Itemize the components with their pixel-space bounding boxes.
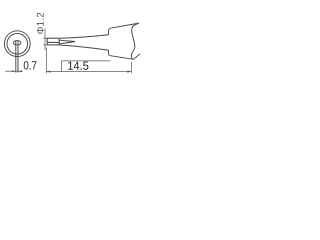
body bottom line xyxy=(110,56,133,60)
dia 1.2 dimension vertical line xyxy=(44,29,46,51)
side view blade mid line xyxy=(47,41,59,43)
shoulder bottom chamfer xyxy=(109,55,111,56)
label dia 1.2 (rotated) xyxy=(37,13,44,34)
shoulder top vertical xyxy=(108,30,110,35)
annotation box left vertical xyxy=(60,61,62,72)
cone top line xyxy=(59,35,108,39)
shoulder top chamfer xyxy=(109,28,111,30)
front view inner circle xyxy=(7,34,28,55)
0.7 right arrow xyxy=(18,70,22,72)
blade edge extension line left xyxy=(15,41,17,73)
14.5 right extension line xyxy=(130,62,132,73)
14.5 dimension line left part xyxy=(46,71,131,73)
annotation box top line xyxy=(61,60,110,62)
dia 1.2 top tick xyxy=(44,37,48,39)
side view cylinder bottom xyxy=(47,44,59,46)
dia 1.2 bottom tick xyxy=(44,44,48,46)
break S-curve xyxy=(131,23,139,59)
label 14.5 xyxy=(68,62,88,70)
side view nose vertical xyxy=(46,38,48,45)
front view outer circle xyxy=(4,31,30,57)
bottom right diagonal xyxy=(134,54,140,60)
14.5 right arrow xyxy=(127,71,131,73)
cone bottom line xyxy=(59,45,108,50)
14.5 left extension line xyxy=(45,48,47,74)
body top line xyxy=(110,23,139,28)
14.5 left arrow xyxy=(46,71,50,73)
front view tip face ellipse xyxy=(13,41,21,46)
blade edge extension line right xyxy=(17,41,19,73)
side view cylinder top xyxy=(47,37,59,39)
shoulder bottom vertical xyxy=(108,50,110,54)
0.7 dimension line xyxy=(5,70,23,72)
chisel flat leaf xyxy=(59,40,75,44)
label 0.7 xyxy=(24,61,37,69)
0.7 left arrow xyxy=(12,70,16,72)
side view cylinder end vertical xyxy=(58,38,60,45)
